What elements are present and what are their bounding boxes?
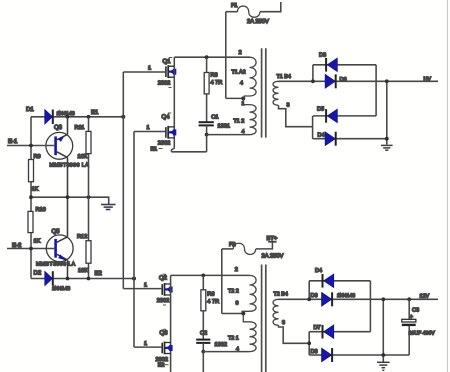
svg-text:D1: D1 [26, 106, 34, 113]
junction dots rect1 [385, 79, 389, 140]
wire left vertical bus [30, 117, 32, 279]
junction dot C1 bottom [205, 133, 209, 137]
junction dot rect2 netB [307, 341, 311, 345]
transformer T1 core [262, 48, 266, 137]
junction dot C3 top [407, 297, 411, 301]
junction dots on E2 row [66, 277, 136, 281]
svg-text:1N4148: 1N4148 [57, 111, 75, 117]
junction dot base Q5 [29, 247, 33, 251]
svg-text:D4: D4 [315, 268, 322, 274]
wire E2 gate bus [133, 132, 135, 348]
wire bottom rail top module [171, 141, 206, 152]
wire Q1 gate row [123, 66, 165, 73]
resistor R10 1K [28, 207, 46, 244]
svg-text:2: 2 [239, 50, 242, 56]
svg-text:E2: E2 [158, 363, 165, 369]
svg-text:R12: R12 [77, 234, 87, 240]
svg-text:D3: D3 [319, 53, 326, 59]
junction dot base Q3 [29, 144, 33, 148]
svg-text:T1 A2: T1 A2 [232, 70, 246, 76]
svg-text:MMBT3906 LA: MMBT3906 LA [50, 163, 90, 169]
svg-text:1331: 1331 [218, 124, 230, 130]
svg-text:12V: 12V [420, 293, 430, 299]
diode D5 [317, 106, 337, 122]
wire C1 to bottom rail [206, 135, 208, 152]
wire C2 bottom down [202, 352, 204, 372]
junction dot C2 bottom [201, 350, 205, 354]
svg-text:D5: D5 [317, 106, 324, 112]
svg-text:1: 1 [144, 341, 147, 347]
border right edge [447, 0, 449, 372]
svg-text:Q4: Q4 [162, 114, 171, 121]
wire Q6 gate row [134, 341, 161, 347]
diode D7 [314, 325, 334, 339]
svg-text:1K: 1K [34, 238, 41, 244]
svg-text:2A 250V: 2A 250V [262, 253, 284, 260]
wire rect1 row3 [313, 115, 376, 117]
svg-text:1K: 1K [32, 187, 39, 193]
svg-text:E1: E1 [91, 109, 99, 116]
svg-text:Q5: Q5 [52, 228, 61, 235]
capacitor C1 [199, 114, 230, 134]
diode D6 [325, 74, 346, 88]
svg-text:MMBT3906 LA: MMBT3906 LA [36, 261, 76, 267]
wire Q2 gate row [123, 282, 161, 288]
svg-text:C3: C3 [412, 307, 419, 313]
junction dot netA [311, 79, 315, 83]
diode D1 1N4148 [26, 106, 75, 124]
svg-text:HV: HV [424, 76, 432, 82]
diode D6b 1N4148 [311, 292, 356, 306]
diode D4b [315, 268, 334, 288]
junction dot rect2 netA [307, 297, 311, 301]
transistor Q3 MMBT3906 [31, 117, 89, 197]
wire top rail T2 [171, 274, 250, 276]
junction dots mid rail [29, 195, 90, 199]
svg-text:2302: 2302 [157, 298, 169, 304]
junction dot R6 top [201, 274, 205, 278]
mosfet Q1 2302 [158, 58, 176, 88]
transformer T2 primary winding B [228, 314, 256, 353]
wire rect2 netA vertical [308, 281, 310, 300]
wire E1 gate bus [122, 72, 124, 289]
svg-text:T2 2: T2 2 [228, 288, 239, 294]
node E-2 input [7, 242, 54, 249]
wire F1 to center tap [226, 12, 244, 99]
wire rect2 row4 [309, 354, 409, 356]
svg-text:10K: 10K [78, 154, 88, 160]
wire rect1 row4 [313, 138, 387, 140]
transformer T2 secondary [273, 291, 309, 343]
svg-text:C1: C1 [211, 114, 218, 120]
svg-text:T1 B4: T1 B4 [277, 74, 291, 80]
svg-text:D4: D4 [318, 133, 325, 139]
wire drain-source vertical top module [173, 57, 175, 141]
wire rect1 right link vertical [375, 65, 377, 116]
resistor R3 4.7R [204, 57, 222, 122]
svg-text:C2: C2 [200, 330, 207, 336]
wire rect1 row1 [313, 64, 376, 66]
svg-text:4 7R: 4 7R [207, 299, 219, 305]
svg-text:D7: D7 [314, 325, 321, 331]
wire top rail T1 [174, 56, 249, 58]
svg-text:1: 1 [148, 66, 151, 72]
wire rect2 right link vertical [369, 281, 371, 332]
wire rect2 netB vertical [308, 332, 310, 355]
svg-text:R3: R3 [211, 72, 218, 78]
junction dot T1 center tap [241, 96, 245, 100]
diode D3 [319, 53, 337, 72]
svg-text:T1 2: T1 2 [234, 119, 245, 125]
transformer T1 primary winding B [234, 98, 257, 135]
svg-text:F1: F1 [231, 3, 238, 9]
diode D2 1N4148 [34, 269, 71, 292]
svg-text:1: 1 [147, 125, 150, 131]
svg-text:Q3: Q3 [54, 124, 63, 131]
wire rect1 netA vertical [312, 65, 314, 82]
svg-text:E1: E1 [151, 147, 158, 153]
capacitor C3 10UF 400V [402, 299, 435, 355]
wire rect1 ground vertical [386, 81, 388, 144]
svg-text:2: 2 [235, 267, 238, 273]
svg-text:BT+: BT+ [267, 236, 278, 242]
svg-text:D8: D8 [311, 349, 318, 355]
svg-text:E-1: E-1 [8, 138, 18, 145]
transformer T1 secondary [273, 74, 313, 127]
svg-text:T2 B4: T2 B4 [274, 291, 288, 297]
transformer T2 core [262, 265, 266, 372]
svg-text:1: 1 [144, 282, 147, 288]
svg-text:4: 4 [240, 81, 243, 87]
junction dots rect2 [381, 297, 385, 357]
wire T2 primary bottom [203, 351, 249, 353]
wire rect1 netB vertical [312, 116, 314, 139]
svg-text:3: 3 [282, 320, 285, 326]
svg-text:R10: R10 [36, 207, 46, 213]
mosfet Q4 2302 [151, 113, 177, 153]
wire Q4 gate row [134, 125, 165, 131]
transformer T1 primary winding A [232, 50, 257, 98]
svg-text:D2: D2 [34, 269, 42, 276]
wire E1 row [31, 116, 123, 118]
svg-text:Q2: Q2 [159, 274, 168, 281]
svg-text:2302: 2302 [158, 80, 170, 86]
wire F2 to center tap [222, 249, 244, 314]
svg-text:1N4148: 1N4148 [337, 293, 355, 299]
svg-text:E2: E2 [95, 270, 103, 277]
svg-text:10UF 400V: 10UF 400V [409, 331, 436, 337]
svg-text:1N4148: 1N4148 [52, 286, 70, 292]
svg-text:T2 1: T2 1 [228, 335, 239, 341]
ground driver [101, 205, 116, 210]
junction dots on E1 row [66, 115, 126, 119]
wire mid rail [31, 197, 109, 204]
svg-text:6: 6 [236, 300, 239, 306]
wire rect1 row2 output [279, 80, 439, 82]
svg-text:R9: R9 [34, 154, 41, 160]
svg-text:Q6: Q6 [160, 329, 169, 336]
resistor R6 4.7R [201, 275, 219, 339]
diode D4 [318, 132, 336, 146]
svg-text:4 7R: 4 7R [211, 80, 223, 86]
capacitor C2 [196, 330, 227, 351]
wire rect2 row3 [309, 331, 370, 333]
wire rect2 row2 output [279, 298, 439, 300]
svg-text:Q1: Q1 [163, 58, 172, 65]
svg-text:1332: 1332 [215, 342, 227, 348]
svg-text:R6: R6 [207, 291, 214, 297]
mosfet Q6 2302 [156, 329, 173, 368]
fuse F2 2A 250V [222, 236, 284, 259]
svg-text:10K: 10K [78, 268, 88, 274]
fuse F1 2A 250V [226, 2, 281, 25]
node E-1 input [7, 138, 31, 146]
ground rect1 [381, 145, 393, 150]
junction dot R3 top [205, 55, 209, 59]
transformer T2 primary winding A [228, 267, 256, 314]
mosfet Q2 2302 [157, 274, 173, 305]
svg-text:R11: R11 [75, 125, 85, 131]
transistor Q5 MMBT3906 [36, 197, 76, 278]
svg-text:3: 3 [287, 102, 290, 108]
svg-text:D6: D6 [311, 293, 318, 299]
svg-text:2302: 2302 [158, 140, 170, 146]
wire rect2 row1 [309, 280, 370, 282]
resistor R11 10K [75, 117, 92, 197]
wire rect2 ground vertical [382, 299, 384, 362]
svg-text:2A 250V: 2A 250V [247, 18, 269, 25]
junction dot T2 center tap [241, 312, 245, 316]
diode D8 [311, 348, 333, 362]
wire T1 primary bottom [207, 134, 250, 136]
ground rect2 [377, 362, 390, 370]
wire drain-source vertical bottom module [170, 275, 172, 372]
resistor R12 10K [77, 197, 91, 278]
resistor R9 1K [29, 154, 41, 193]
wire E2 row [31, 278, 134, 280]
svg-text:D6: D6 [340, 77, 347, 83]
